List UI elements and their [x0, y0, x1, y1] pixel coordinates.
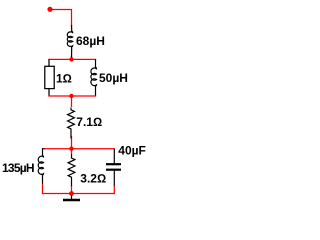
node junction bottom of block 1 [69, 94, 73, 98]
wire lead 3.2ohm bottom [71, 185, 73, 194]
wire middle vertical upper [71, 96, 73, 107]
wire lead 135uH bottom [42, 184, 44, 194]
node input terminal [47, 7, 52, 12]
svg-text:7.1Ω: 7.1Ω [76, 115, 102, 129]
ground [63, 195, 80, 200]
wire bottom rail of parallel block 2 [42, 193, 115, 195]
wire lead to L1 bottom [71, 55, 73, 59]
wire top rail of parallel block 2 [44, 148, 115, 150]
svg-text:68µH: 68µH [76, 34, 105, 48]
svg-text:1Ω: 1Ω [56, 72, 72, 86]
resistor 3.2ohm [68, 154, 75, 186]
wire middle vertical lower [71, 136, 73, 149]
resistor R1 1ohm [45, 59, 54, 95]
inductor 50uH [91, 59, 97, 96]
node junction top of block 2 [69, 147, 73, 151]
inductor 135uH [38, 149, 44, 184]
wire bottom rail of parallel block 1 [48, 95, 96, 97]
svg-text:40µF: 40µF [118, 144, 146, 158]
node junction ground [69, 191, 74, 196]
capacitor 40uF [106, 149, 121, 186]
wire lead cap bottom [113, 186, 115, 194]
svg-text:3.2Ω: 3.2Ω [80, 172, 106, 186]
inductor 68uH [67, 25, 72, 58]
svg-text:135µH: 135µH [2, 161, 34, 175]
node junction top of block 1 [69, 57, 73, 61]
wire lead 3.2ohm top [71, 149, 73, 155]
wire input top [50, 10, 72, 28]
wire top rail of parallel block 1 [48, 58, 96, 60]
svg-text:50µH: 50µH [99, 71, 128, 85]
resistor 7.1ohm [68, 108, 75, 139]
